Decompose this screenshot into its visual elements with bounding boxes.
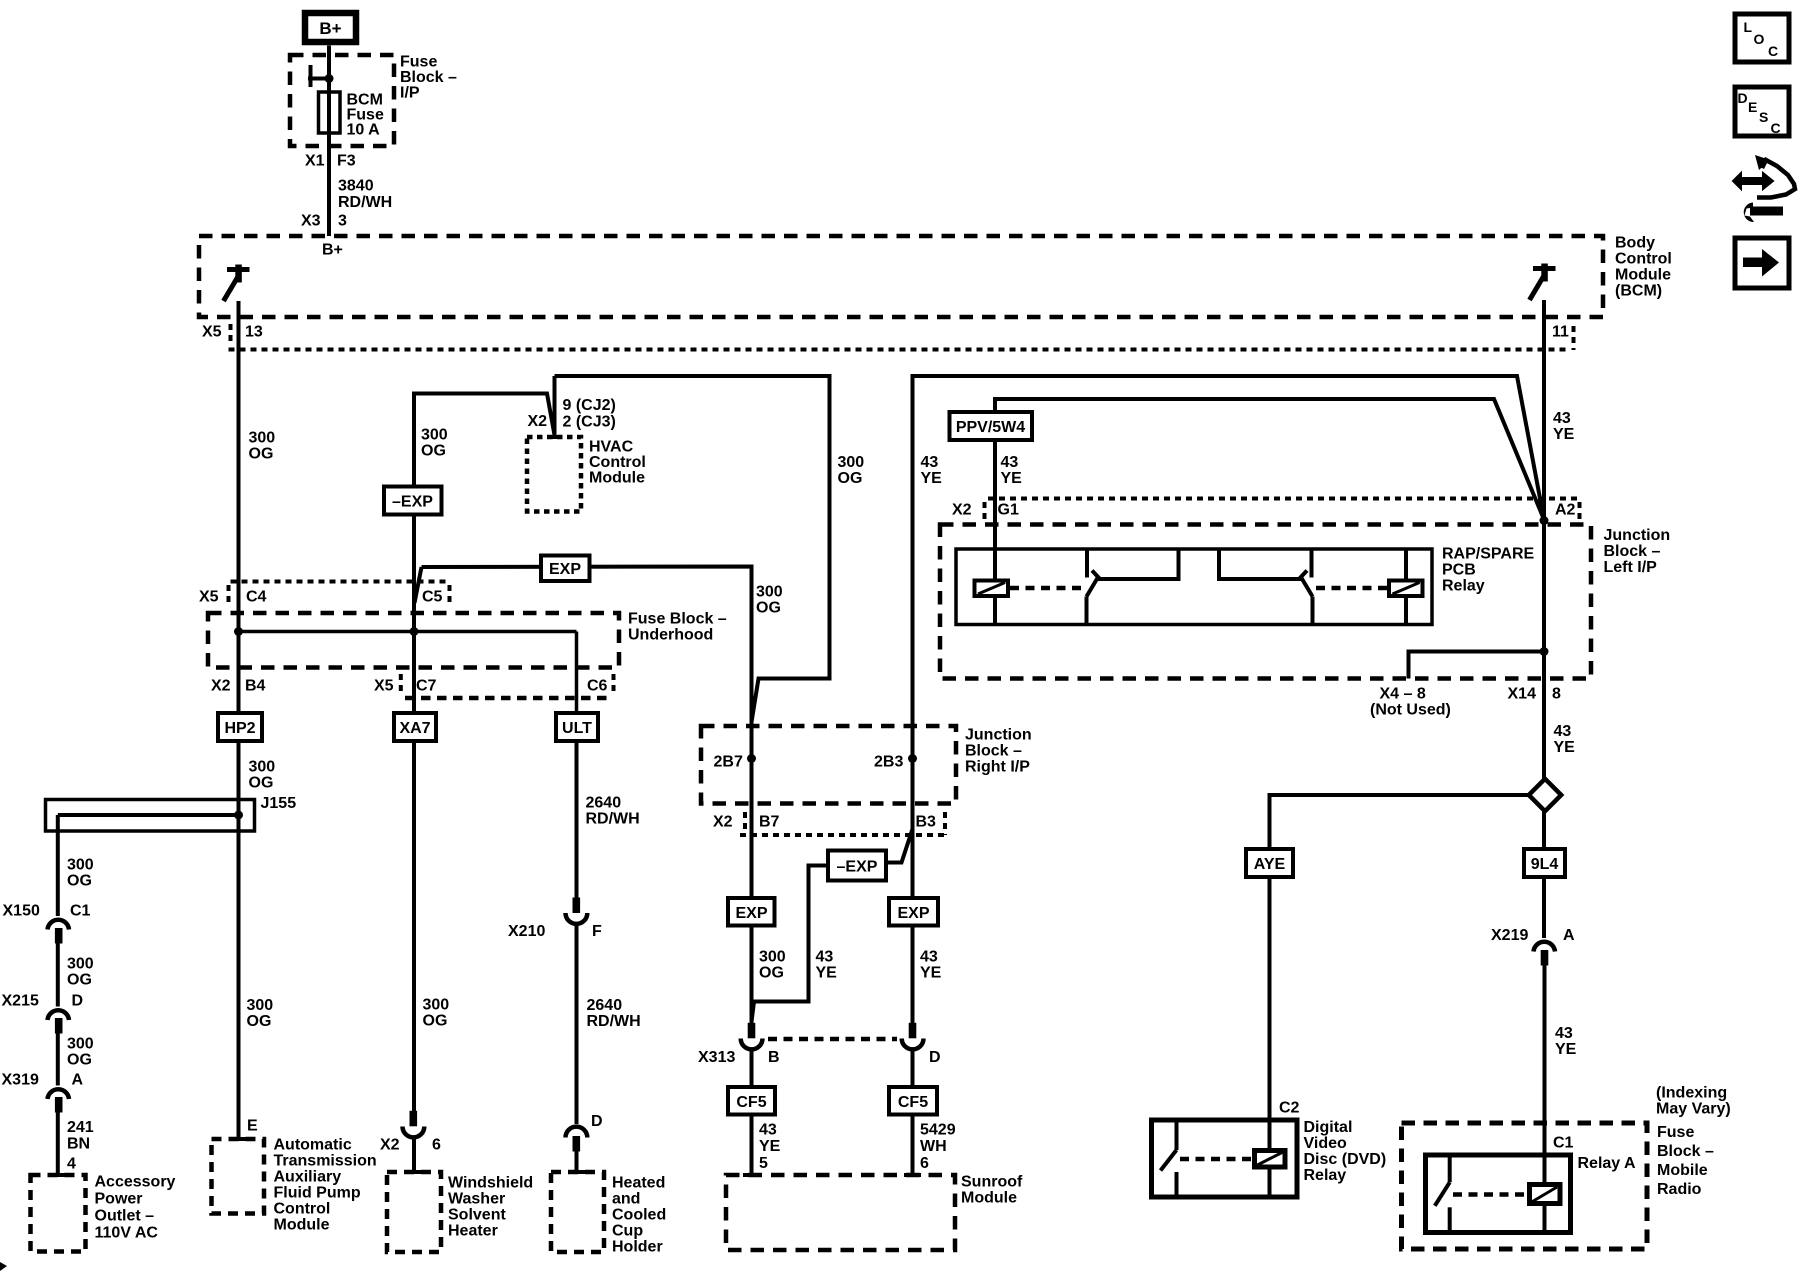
svg-text:B4: B4 xyxy=(245,678,266,695)
svg-text:E: E xyxy=(1748,99,1757,115)
wire label 300 OG xyxy=(249,430,276,463)
bracket X5 left xyxy=(229,324,233,344)
BCM driver switch left xyxy=(224,265,250,302)
svg-text:300: 300 xyxy=(756,584,783,601)
connector row X5/13 ... 11 dotted line xyxy=(229,348,1568,352)
wire CF5 to sunroof (5429 WH 6) xyxy=(911,1115,915,1176)
pin labels X14 8 xyxy=(1508,686,1562,703)
wire end tick at outlet xyxy=(50,1173,67,1177)
svg-text:G1: G1 xyxy=(998,502,1019,519)
svg-text:A: A xyxy=(72,1072,84,1089)
in-line connector X319 A xyxy=(48,1089,70,1112)
svg-text:–EXP: –EXP xyxy=(392,494,433,511)
wire into cup holder xyxy=(575,1152,579,1173)
BCM pin 11 stub xyxy=(1542,300,1546,360)
svg-text:2640: 2640 xyxy=(586,795,622,812)
svg-text:X219: X219 xyxy=(1491,927,1528,944)
svg-text:OG: OG xyxy=(421,443,446,460)
svg-text:300: 300 xyxy=(67,857,94,874)
svg-text:Automatic: Automatic xyxy=(274,1137,352,1154)
svg-text:11: 11 xyxy=(1552,324,1569,341)
wire label 300 OG (XA7 branch) xyxy=(421,427,448,460)
pin labels X313 B D xyxy=(698,1049,941,1066)
svg-text:5429: 5429 xyxy=(920,1122,956,1139)
label Fuse Block - Mobile Radio xyxy=(1657,1124,1714,1198)
bracket X2/G1 xyxy=(983,502,987,522)
wire EXP horizontal (C5 to junction block right) xyxy=(422,567,752,759)
svg-text:OG: OG xyxy=(423,1013,448,1030)
svg-text:(Not Used): (Not Used) xyxy=(1370,702,1451,719)
svg-text:Body: Body xyxy=(1615,235,1655,252)
svg-text:PPV/5W4: PPV/5W4 xyxy=(956,419,1025,436)
svg-text:300: 300 xyxy=(759,949,786,966)
svg-text:A2: A2 xyxy=(1555,502,1576,519)
wire HVAC pin to XA7 branch (300 OG) xyxy=(414,394,555,632)
label Accessory Power Outlet - 110V AC xyxy=(95,1174,176,1242)
svg-text:L: L xyxy=(1744,19,1753,35)
svg-text:43: 43 xyxy=(759,1122,777,1139)
wire label 300 OG xyxy=(249,759,276,792)
svg-text:43: 43 xyxy=(1553,410,1571,427)
connector row X5/C4 C5 dotted line xyxy=(231,580,449,584)
svg-text:(BCM): (BCM) xyxy=(1615,283,1662,300)
wire ULT to cup holder (2640 RD/WH) xyxy=(575,741,579,898)
svg-text:10 A: 10 A xyxy=(347,122,381,139)
svg-text:F: F xyxy=(592,923,602,940)
svg-text:OG: OG xyxy=(247,1013,272,1030)
svg-text:OG: OG xyxy=(756,600,781,617)
junction dot at C4 bus xyxy=(234,627,243,636)
svg-text:Transmission: Transmission xyxy=(274,1153,377,1170)
wire HVAC feed to junction block right (300 OG) xyxy=(555,376,830,722)
fuse BCM Fuse 10 A xyxy=(319,92,341,133)
svg-text:Control: Control xyxy=(274,1201,331,1218)
svg-text:RD/WH: RD/WH xyxy=(587,1013,641,1030)
pin labels X5 C7 C6 xyxy=(374,678,608,695)
in-line connector X313 D xyxy=(902,1023,924,1050)
svg-text:YE: YE xyxy=(1554,739,1576,756)
wire -EXP drop to X313 (43 YE) xyxy=(752,866,829,1023)
svg-text:AYE: AYE xyxy=(1254,856,1286,873)
power feed B+ terminal xyxy=(305,13,356,42)
Junction Block - Left I/P dashed box xyxy=(940,525,1591,679)
svg-text:D: D xyxy=(72,993,84,1010)
svg-text:X210: X210 xyxy=(508,923,545,940)
svg-text:300: 300 xyxy=(421,427,448,444)
wire XA7 to washer heater (300 OG) xyxy=(412,741,416,1112)
relay coil right xyxy=(1389,549,1423,625)
wire segment 241 BN 4 xyxy=(56,1113,60,1176)
pin labels X3 3 xyxy=(301,213,347,230)
pin labels X2 B4 xyxy=(211,678,266,695)
svg-text:X319: X319 xyxy=(2,1072,39,1089)
wire label 3840 RD/WH xyxy=(338,178,392,212)
wire segment 2640 RD/WH xyxy=(575,924,579,1125)
svg-text:YE: YE xyxy=(1555,1041,1577,1058)
relay dashed actuator link right xyxy=(1316,586,1387,591)
svg-text:Accessory: Accessory xyxy=(95,1174,176,1191)
svg-text:4: 4 xyxy=(67,1156,76,1173)
svg-text:B+: B+ xyxy=(322,242,343,259)
svg-text:C1: C1 xyxy=(70,903,91,920)
wire into washer heater xyxy=(412,1137,416,1172)
svg-text:EXP: EXP xyxy=(549,561,581,578)
svg-text:43: 43 xyxy=(816,949,834,966)
wire segment 300 OG xyxy=(56,1034,60,1086)
svg-text:XA7: XA7 xyxy=(399,720,430,737)
svg-text:Left I/P: Left I/P xyxy=(1604,559,1658,576)
svg-text:Underhood: Underhood xyxy=(628,627,713,644)
svg-text:43: 43 xyxy=(920,949,938,966)
svg-text:B: B xyxy=(768,1049,780,1066)
wire end tick at sunroof right xyxy=(904,1173,921,1177)
Fuse Block - Mobile Radio dashed box xyxy=(1402,1123,1648,1249)
label Sunroof Module xyxy=(961,1174,1023,1207)
connector row X5/C7 C6 dashed line xyxy=(405,696,613,701)
icon reroute arrows glyph xyxy=(1733,155,1795,222)
svg-text:Cooled: Cooled xyxy=(612,1207,666,1224)
wire end tick at washer heater xyxy=(406,1170,423,1174)
svg-text:X150: X150 xyxy=(3,903,40,920)
svg-text:YE: YE xyxy=(1553,426,1575,443)
in-line connector X210 F xyxy=(566,898,588,924)
label (Indexing May Vary) xyxy=(1656,1085,1731,1118)
fuse 9L4 xyxy=(1524,849,1565,877)
svg-text:OG: OG xyxy=(249,446,274,463)
wire label 241 BN 4 xyxy=(67,1119,94,1173)
fuse AYE xyxy=(1246,849,1293,877)
svg-text:OG: OG xyxy=(67,873,92,890)
svg-text:May Vary): May Vary) xyxy=(1656,1101,1731,1118)
Relay A switch xyxy=(1435,1155,1450,1233)
svg-text:300: 300 xyxy=(247,997,274,1014)
label Junction Block - Left I/P xyxy=(1604,527,1671,576)
Relay A dashed actuator link xyxy=(1453,1192,1527,1197)
bracket X5/C4 xyxy=(227,585,231,605)
fuse EXP (B7 chain) xyxy=(728,898,775,926)
svg-text:D: D xyxy=(591,1113,603,1130)
svg-text:Block –: Block – xyxy=(1604,543,1661,560)
svg-text:OG: OG xyxy=(759,965,784,982)
relay switch left xyxy=(1087,549,1179,625)
svg-text:43: 43 xyxy=(1555,1025,1573,1042)
svg-text:YE: YE xyxy=(921,470,943,487)
svg-text:EXP: EXP xyxy=(897,905,929,922)
in-line connector X313 B xyxy=(741,1023,763,1050)
svg-text:Fuse Block –: Fuse Block – xyxy=(628,611,727,628)
svg-text:300: 300 xyxy=(423,997,450,1014)
label Junction Block - Right I/P xyxy=(965,727,1032,776)
branch to -EXP xyxy=(886,829,913,863)
svg-text:3: 3 xyxy=(338,213,347,230)
in-line connector X215 D xyxy=(48,1010,70,1033)
svg-text:3840: 3840 xyxy=(338,178,374,195)
label Automatic Transmission Auxiliary Fluid Pump Control Module xyxy=(274,1137,377,1234)
Heated and Cooled Cup Holder dashed box xyxy=(551,1172,604,1252)
in-line connector X150 C1 xyxy=(48,920,70,944)
svg-text:300: 300 xyxy=(67,956,94,973)
svg-text:EXP: EXP xyxy=(735,905,767,922)
svg-text:Control: Control xyxy=(589,454,646,471)
svg-text:C: C xyxy=(1771,120,1781,136)
bracket right of 11 xyxy=(1572,326,1576,350)
svg-text:Heater: Heater xyxy=(448,1223,498,1240)
wire label 300 OG xyxy=(423,997,450,1030)
wire end tick at sunroof left xyxy=(743,1173,760,1177)
svg-text:RD/WH: RD/WH xyxy=(338,194,392,211)
wire end tick at cup holder xyxy=(568,1170,585,1174)
wire label 43 YE xyxy=(921,454,943,487)
wire B3 chain down xyxy=(911,759,915,1025)
BCM driver switch right xyxy=(1530,264,1556,301)
svg-text:300: 300 xyxy=(249,430,276,447)
svg-text:F3: F3 xyxy=(337,153,356,170)
wire AYE to DVD relay xyxy=(1268,877,1272,1151)
svg-text:241: 241 xyxy=(67,1119,94,1136)
svg-text:Right I/P: Right I/P xyxy=(965,759,1030,776)
svg-text:Outlet –: Outlet – xyxy=(95,1208,155,1225)
bracket right of C6 xyxy=(612,674,616,694)
svg-text:B3: B3 xyxy=(916,814,937,831)
svg-text:8: 8 xyxy=(1552,686,1561,703)
in-line connector X219 A xyxy=(1534,942,1556,966)
svg-text:6: 6 xyxy=(920,1155,929,1172)
svg-text:Sunroof: Sunroof xyxy=(961,1174,1023,1191)
node A2 junction xyxy=(1540,516,1549,525)
svg-text:2B7: 2B7 xyxy=(714,754,743,771)
wire label 2640 RD/WH xyxy=(587,997,641,1030)
svg-text:9 (CJ2): 9 (CJ2) xyxy=(563,397,616,414)
relay dashed actuator link left xyxy=(1010,586,1085,591)
svg-text:(Indexing: (Indexing xyxy=(1656,1085,1727,1102)
bracket right of C5 xyxy=(448,585,452,605)
wire XA7 chain down xyxy=(412,632,416,714)
label HVAC Control Module xyxy=(589,439,646,487)
svg-text:RAP/SPARE: RAP/SPARE xyxy=(1442,546,1534,563)
fuse EXP (B3 chain) xyxy=(889,898,938,926)
svg-text:BN: BN xyxy=(67,1136,90,1153)
Relay A coil xyxy=(1530,1185,1561,1233)
wire diamond to 9L4 xyxy=(1542,811,1546,849)
svg-text:X2: X2 xyxy=(528,413,548,430)
wire bus to ULT xyxy=(575,632,579,714)
svg-text:X215: X215 xyxy=(2,993,39,1010)
DVD relay switch xyxy=(1161,1120,1177,1197)
wire BCM pin 13 to HP2 (300 OG) xyxy=(237,350,241,714)
svg-text:O: O xyxy=(1754,31,1765,47)
svg-text:Junction: Junction xyxy=(965,727,1032,744)
pin labels X210 F xyxy=(508,923,602,940)
svg-text:S: S xyxy=(1759,109,1768,125)
svg-text:I/P: I/P xyxy=(400,85,420,102)
svg-text:2 (CJ3): 2 (CJ3) xyxy=(563,414,616,431)
diagonal EXP wire tap at C5 xyxy=(415,567,422,603)
svg-text:Relay: Relay xyxy=(1442,578,1485,595)
svg-text:B7: B7 xyxy=(759,814,780,831)
wire X313 B to CF5 xyxy=(750,1049,754,1087)
svg-text:Heated: Heated xyxy=(612,1175,665,1192)
svg-text:B+: B+ xyxy=(319,19,341,38)
svg-text:Fuse: Fuse xyxy=(400,54,437,71)
svg-text:C5: C5 xyxy=(422,589,443,606)
wire X219 to Relay A (43 YE) xyxy=(1543,966,1547,1185)
pin labels X2 G1 A2 xyxy=(952,502,1576,519)
svg-text:X4 – 8: X4 – 8 xyxy=(1380,686,1426,703)
svg-text:43: 43 xyxy=(1554,723,1572,740)
fuse XA7 xyxy=(394,713,436,741)
fuse ULT xyxy=(556,713,598,741)
svg-text:D: D xyxy=(929,1049,941,1066)
fuse CF5 left xyxy=(728,1087,775,1115)
wire J155 to accessory outlet (left branch) xyxy=(56,815,60,916)
svg-text:Block –: Block – xyxy=(965,743,1022,760)
wire label 300 OG xyxy=(838,454,865,487)
wire -EXP to C5 xyxy=(412,515,416,632)
svg-text:–EXP: –EXP xyxy=(837,859,878,876)
pin labels X2 9 (CJ2) 2 (CJ3) xyxy=(528,397,616,431)
svg-text:Windshield: Windshield xyxy=(448,1175,533,1192)
wire A2 through junction block to X14 8 xyxy=(1542,520,1546,781)
svg-text:WH: WH xyxy=(920,1138,947,1155)
svg-text:C1: C1 xyxy=(1553,1135,1574,1152)
wire label 2640 RD/WH xyxy=(586,795,640,828)
pin labels X5 C4 C5 xyxy=(199,589,443,606)
pin labels X319 A xyxy=(2,1072,84,1089)
wire HP2 to J155 (300 OG) xyxy=(237,741,241,801)
wire label 5429 WH 6 xyxy=(920,1122,956,1173)
wire label 300 OG xyxy=(67,1036,94,1069)
svg-text:Video: Video xyxy=(1304,1135,1348,1152)
svg-text:YE: YE xyxy=(759,1138,781,1155)
wire BCM pin 11 to A2 (43 YE) xyxy=(1542,350,1546,525)
fuse EXP on horizontal xyxy=(541,556,590,582)
wire label 300 OG xyxy=(67,857,94,890)
svg-text:Power: Power xyxy=(95,1191,143,1208)
icon LOC box xyxy=(1735,14,1789,62)
svg-text:Mobile: Mobile xyxy=(1657,1162,1708,1179)
svg-text:HVAC: HVAC xyxy=(589,439,634,456)
connector row X2 B7 B3 dotted line xyxy=(740,833,947,837)
svg-text:13: 13 xyxy=(245,324,263,341)
wire label 43 YE (PPV drop) xyxy=(1001,454,1023,487)
label BCM Fuse 10 A xyxy=(347,92,384,139)
wire B+ to BCM (3840 RD/WH) xyxy=(327,46,331,237)
svg-text:OG: OG xyxy=(838,470,863,487)
svg-text:A: A xyxy=(1563,927,1575,944)
dashed link X313 B to D xyxy=(768,1037,897,1042)
svg-text:9L4: 9L4 xyxy=(1531,856,1559,873)
in-line connector X2 6 xyxy=(403,1111,425,1138)
svg-text:X2: X2 xyxy=(713,814,733,831)
wire 2B3 riser to BCM area xyxy=(913,376,1545,759)
relay switch right xyxy=(1219,549,1313,625)
svg-text:C: C xyxy=(1768,43,1778,59)
svg-text:Module: Module xyxy=(1615,267,1671,284)
pin labels X215 D xyxy=(2,993,84,1010)
svg-text:X2: X2 xyxy=(211,678,231,695)
label RAP/SPARE PCB Relay xyxy=(1442,546,1534,595)
Junction Block - Right I/P dashed box xyxy=(701,726,956,804)
wire segment 300 OG xyxy=(56,944,60,1007)
Fuse Block - I/P dashed box xyxy=(290,55,394,146)
DVD relay pin C2 inside xyxy=(1268,1120,1272,1151)
svg-text:Digital: Digital xyxy=(1304,1119,1353,1136)
svg-text:Relay: Relay xyxy=(1304,1167,1347,1184)
Windshield Washer Solvent Heater dashed box xyxy=(387,1172,441,1252)
wire diamond to AYE branch xyxy=(1270,795,1529,849)
wire B7 chain down xyxy=(750,759,754,1025)
svg-text:300: 300 xyxy=(249,759,276,776)
pin labels X219 A xyxy=(1491,927,1575,944)
svg-text:YE: YE xyxy=(816,965,838,982)
svg-text:5: 5 xyxy=(759,1155,768,1172)
fuse -EXP xyxy=(384,487,442,515)
label Fuse Block - Underhood xyxy=(628,611,727,644)
bracket X2/B7 xyxy=(743,812,747,832)
wire label 43 YE xyxy=(1554,723,1576,756)
svg-text:2B3: 2B3 xyxy=(874,754,903,771)
wire label 43 YE xyxy=(1555,1025,1577,1058)
svg-text:300: 300 xyxy=(838,454,865,471)
HVAC Control Module dashed box xyxy=(527,437,581,512)
svg-text:D: D xyxy=(1738,90,1748,106)
bracket X5/C7 xyxy=(399,674,403,694)
svg-text:OG: OG xyxy=(67,972,92,989)
pin labels X2 6 xyxy=(380,1137,441,1154)
svg-text:YE: YE xyxy=(1001,470,1023,487)
wire end tick at module xyxy=(230,1137,247,1141)
svg-text:Holder: Holder xyxy=(612,1239,663,1256)
svg-text:Block –: Block – xyxy=(1657,1143,1714,1160)
svg-text:and: and xyxy=(612,1191,640,1208)
wire label 300 OG xyxy=(247,997,274,1030)
wire label 300 OG (EXP drop) xyxy=(756,584,783,617)
pin labels X2 B7 B3 xyxy=(713,814,936,831)
Relay A pin C1 inside xyxy=(1543,1155,1547,1185)
icon forward arrow box xyxy=(1735,238,1789,288)
HVAC pin tick xyxy=(548,435,560,439)
svg-text:RD/WH: RD/WH xyxy=(586,811,640,828)
fuse HP2 xyxy=(218,713,262,741)
wire label 43 YE xyxy=(816,949,838,982)
svg-text:Auxiliary: Auxiliary xyxy=(274,1169,342,1186)
svg-text:Fluid Pump: Fluid Pump xyxy=(274,1185,361,1202)
svg-text:43: 43 xyxy=(1001,454,1019,471)
svg-text:X14: X14 xyxy=(1508,686,1537,703)
wire label 300 OG xyxy=(67,956,94,989)
svg-text:43: 43 xyxy=(921,454,939,471)
label Fuse Block - I/P xyxy=(400,54,457,102)
svg-text:Module: Module xyxy=(274,1217,330,1234)
svg-text:2640: 2640 xyxy=(587,997,623,1014)
label Digital Video Disc (DVD) Relay xyxy=(1304,1119,1387,1184)
svg-text:C7: C7 xyxy=(416,678,437,695)
svg-text:E: E xyxy=(247,1118,258,1135)
svg-text:X5: X5 xyxy=(202,324,222,341)
wire HVAC pin riser xyxy=(553,376,557,437)
Accessory Power Outlet - 110V AC dashed box xyxy=(31,1175,86,1252)
pin labels X5 13 xyxy=(202,324,263,341)
wire label 43 YE xyxy=(1553,410,1575,443)
pin labels X1 F3 xyxy=(305,153,356,170)
Automatic Transmission Auxiliary Fluid Pump Control Module dashed box xyxy=(212,1139,265,1214)
fuse block internal bus xyxy=(239,630,577,634)
RAP/SPARE PCB Relay box xyxy=(956,549,1432,625)
pin labels X4 - 8 (Not Used) xyxy=(1370,686,1451,719)
wire label 43 YE 5 xyxy=(759,1122,781,1173)
svg-text:X3: X3 xyxy=(301,213,321,230)
wire X4-8 not used stub xyxy=(1409,652,1545,679)
